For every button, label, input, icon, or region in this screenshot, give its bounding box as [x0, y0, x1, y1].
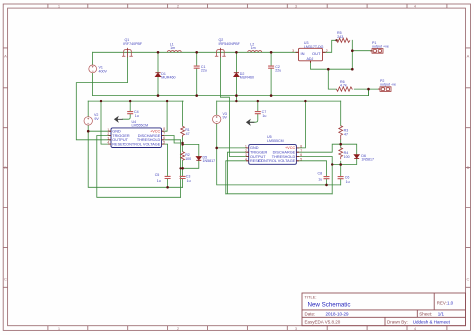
- svg-text:TITLE:: TITLE:: [305, 295, 317, 300]
- svg-text:New Schematic: New Schematic: [308, 302, 351, 309]
- svg-text:IRF740PBF: IRF740PBF: [123, 42, 143, 46]
- svg-text:100: 100: [344, 155, 350, 159]
- svg-text:9V: 9V: [94, 117, 99, 121]
- svg-text:Uddesh & Harneet: Uddesh & Harneet: [413, 319, 451, 324]
- svg-text:A: A: [467, 54, 470, 59]
- svg-text:MUR460: MUR460: [161, 76, 175, 80]
- svg-text:1u: 1u: [135, 114, 139, 118]
- svg-text:4: 4: [107, 140, 109, 144]
- svg-text:2018-10-29: 2018-10-29: [326, 312, 350, 317]
- svg-text:C: C: [4, 277, 7, 282]
- svg-text:CONTROL VOLTAGE: CONTROL VOLTAGE: [123, 142, 160, 146]
- svg-text:1.0: 1.0: [447, 301, 454, 306]
- svg-text:MUR460: MUR460: [240, 76, 254, 80]
- svg-text:8: 8: [163, 127, 165, 131]
- svg-text:3: 3: [292, 49, 294, 53]
- svg-text:9V: 9V: [223, 116, 228, 120]
- svg-text:1u: 1u: [187, 179, 191, 183]
- svg-text:1m: 1m: [251, 46, 256, 50]
- svg-text:C5: C5: [155, 173, 160, 177]
- svg-text:100: 100: [185, 157, 191, 161]
- svg-text:ADJ: ADJ: [307, 57, 314, 61]
- svg-text:EasyEDA V5.8.20: EasyEDA V5.8.20: [305, 319, 341, 324]
- svg-text:1u: 1u: [157, 179, 161, 183]
- svg-text:IRF540NPBF: IRF540NPBF: [219, 42, 241, 46]
- svg-text:47: 47: [186, 132, 190, 136]
- svg-text:Date:: Date:: [305, 312, 316, 317]
- svg-text:B: B: [467, 165, 470, 170]
- svg-text:1u: 1u: [262, 114, 266, 118]
- svg-text:B: B: [4, 165, 7, 170]
- svg-text:CONTROL VOLTAGE: CONTROL VOLTAGE: [258, 159, 295, 163]
- svg-text:47: 47: [344, 132, 348, 136]
- svg-text:4.7k: 4.7k: [340, 83, 347, 87]
- svg-text:A: A: [4, 54, 7, 59]
- svg-text:1N5817: 1N5817: [203, 159, 216, 163]
- svg-text:1/1: 1/1: [438, 312, 445, 317]
- svg-text:5: 5: [300, 157, 302, 161]
- svg-text:1u: 1u: [318, 178, 322, 182]
- svg-text:2: 2: [107, 132, 109, 136]
- svg-text:C8: C8: [318, 171, 323, 175]
- svg-text:C: C: [467, 277, 470, 282]
- svg-text:REV:: REV:: [437, 301, 447, 306]
- svg-text:IN: IN: [301, 51, 305, 56]
- svg-text:5: 5: [163, 140, 165, 144]
- svg-text:OUT: OUT: [312, 51, 321, 56]
- svg-text:Sheet:: Sheet:: [419, 312, 432, 317]
- svg-text:Drawn By:: Drawn By:: [387, 319, 408, 324]
- svg-text:7: 7: [163, 132, 165, 136]
- svg-text:C3: C3: [186, 175, 191, 179]
- svg-text:output -ve: output -ve: [380, 82, 396, 86]
- svg-text:4: 4: [245, 157, 247, 161]
- svg-text:1u: 1u: [346, 180, 350, 184]
- svg-text:LM317T-DG: LM317T-DG: [304, 45, 324, 49]
- svg-text:22u: 22u: [275, 69, 281, 73]
- svg-text:400V: 400V: [99, 70, 108, 74]
- svg-text:LM555CM: LM555CM: [267, 139, 284, 143]
- svg-text:2: 2: [326, 49, 328, 53]
- svg-text:output +ve: output +ve: [372, 44, 389, 48]
- svg-text:1m: 1m: [170, 46, 175, 50]
- svg-text:1N5817: 1N5817: [361, 158, 374, 162]
- svg-text:LM555CM: LM555CM: [132, 123, 149, 127]
- svg-text:22u: 22u: [201, 69, 207, 73]
- svg-text:243: 243: [337, 35, 343, 39]
- svg-text:C6: C6: [345, 175, 350, 179]
- svg-text:6: 6: [163, 136, 165, 140]
